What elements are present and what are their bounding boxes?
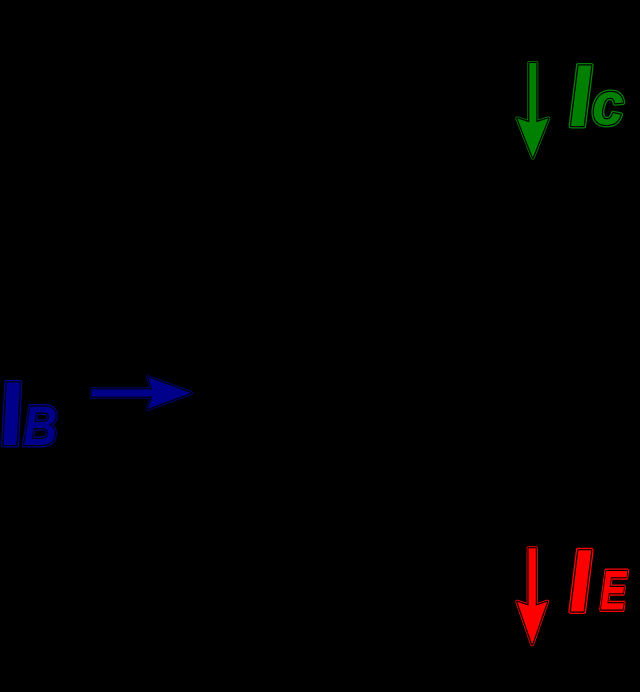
svg-text:E: E (600, 560, 628, 623)
arrow: base current IB (blue, right) (92, 377, 191, 409)
label IB (0, 363, 57, 465)
wire: collector lead (340, 170, 533, 372)
arrow: emitter current IE (red, down) (517, 548, 547, 644)
svg-text:c: c (592, 71, 624, 138)
wire: base lead (200, 389, 328, 395)
svg-text:B: B (23, 394, 57, 456)
transistor Q1 base bar (328, 336, 340, 464)
label IE (564, 530, 628, 630)
label Ic (564, 46, 624, 145)
transistor Q1 body circle (NPN, black on black) (280, 290, 500, 510)
wire: emitter lead with emitter arrowhead (340, 428, 533, 545)
arrow: collector current Ic (green, down) (517, 63, 548, 158)
